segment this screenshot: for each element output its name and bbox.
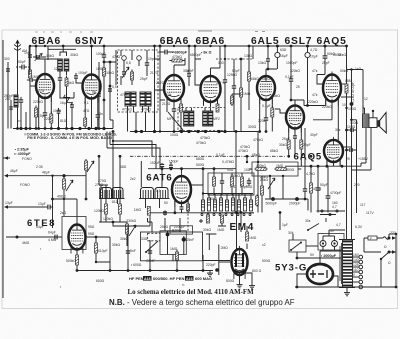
wire: vert x52.5 xyxy=(52,176,54,228)
wire: V9 pins down xyxy=(327,160,340,166)
wire: h y97 xyxy=(341,96,352,98)
wire: vert x26 xyxy=(25,112,27,129)
tube V2 6SN7 xyxy=(83,72,101,103)
potentiometer arrow P4 xyxy=(129,225,136,236)
wire: elbow 2 xyxy=(110,145,156,169)
tube V7 6SL7 xyxy=(286,103,304,133)
capacitor C11 xyxy=(169,162,173,170)
wire: h y62 xyxy=(104,61,116,63)
capacitor C23 blob xyxy=(295,197,299,201)
wire: EM4 feed vert x209 xyxy=(206,234,216,250)
wire: vert x252-168 link xyxy=(249,168,301,170)
wire: pot wiper to 6TE8 xyxy=(63,199,65,216)
wire: y258 h xyxy=(297,257,341,259)
EM4 target shadow xyxy=(236,253,243,267)
wire: V1 pins to bus xyxy=(39,96,52,129)
capacitor C25 xyxy=(327,166,329,194)
bottom bus drops xyxy=(128,240,203,271)
wire: h y105.5 xyxy=(304,105,326,107)
wire: transformer bottom xyxy=(346,287,348,290)
wire: vert x77 xyxy=(76,199,78,225)
wire: vert x110 xyxy=(110,62,113,129)
ground: EM4 right xyxy=(249,283,255,289)
capacitor C8 xyxy=(145,60,149,68)
wires top of tone area xyxy=(113,226,128,246)
capacitor C15 xyxy=(159,51,162,53)
resistor R24 xyxy=(275,168,288,171)
capacitor C37 xyxy=(289,76,293,84)
potentiometer arrow P2 xyxy=(66,180,73,191)
tube V9 6AQ5 xyxy=(324,137,343,166)
capacitor C9 xyxy=(45,205,53,210)
capacitor C38 xyxy=(347,129,350,131)
dotted rail y59 xyxy=(216,58,252,60)
capacitor C30 xyxy=(351,97,353,120)
wire: V9 plate right xyxy=(343,146,352,148)
capacitor C43 xyxy=(163,210,167,215)
wire: V3 rail verticals xyxy=(188,46,190,72)
dashed box: FM front-end xyxy=(118,50,159,112)
wire: left border vertical xyxy=(2,40,4,298)
capacitor C34 xyxy=(108,86,112,94)
wire: AVC dash-dot rail xyxy=(130,155,285,157)
capacitor C18 xyxy=(232,83,236,91)
wire: vert x247 xyxy=(246,156,248,162)
wire: S2 to transformer xyxy=(306,245,318,247)
tube V11 EM4 xyxy=(232,246,248,279)
resistor R7 xyxy=(100,186,103,201)
IF coils in box xyxy=(125,92,130,106)
capacitor C22 blob xyxy=(271,197,275,201)
capacitor C42 xyxy=(148,249,152,254)
wire: vert x249 top xyxy=(248,46,250,59)
coil L1 antenna xyxy=(14,95,18,107)
potentiometer arrow P5 xyxy=(87,161,94,172)
coil L4 xyxy=(154,188,170,199)
wire: bus y166 xyxy=(285,165,345,167)
tube V5 6AL5 xyxy=(257,73,275,104)
wire: V2 plate up xyxy=(91,46,93,74)
band switch S4 contact row xyxy=(200,213,254,216)
capacitor C19 xyxy=(264,115,268,123)
wire: V8 plate right xyxy=(191,169,203,185)
capacitor C47 xyxy=(57,108,61,116)
wire: h y119.8 xyxy=(350,119,357,121)
trimmer cap circles xyxy=(122,56,127,61)
small resistor box above tone box xyxy=(170,226,193,234)
capacitor C27 blob xyxy=(182,237,186,241)
trimmer cap T1 xyxy=(275,52,280,57)
wire: vert x160 xyxy=(159,46,161,132)
wire: x291 vert xyxy=(290,46,292,77)
speaker LS1 magnet xyxy=(369,118,377,128)
wire: elbow 3 xyxy=(107,148,160,169)
junction dots misc xyxy=(90,45,92,47)
resistor R42 xyxy=(231,94,234,106)
wire: x203 down xyxy=(202,169,204,194)
capacitor C49 xyxy=(266,56,270,64)
wire: V10 cathode down xyxy=(76,250,78,256)
capacitor C28 (can) xyxy=(320,241,326,247)
terminal: left edge y158 xyxy=(4,156,8,160)
switch arm S1 xyxy=(146,241,158,252)
wire: V5 pins xyxy=(260,98,273,132)
switch S2 mains selector xyxy=(289,240,306,252)
terminal: phono input 2 xyxy=(4,205,8,209)
wire: vert x234 xyxy=(233,59,235,84)
capacitor C6 xyxy=(74,73,78,81)
resistor R26 xyxy=(310,181,313,196)
tube V8 6AT6 xyxy=(172,173,191,207)
wire: V7 pins down xyxy=(289,127,302,141)
wire: mains terminals xyxy=(388,237,391,240)
wire: rail x356.5 xyxy=(356,120,358,213)
wire: caps row y199 xyxy=(265,198,308,200)
resistor R14 xyxy=(213,176,216,188)
switch S3 mains xyxy=(381,252,389,259)
tube V1 6BA6 xyxy=(36,71,54,102)
box: 6TE8 stage xyxy=(62,217,86,250)
wire: V7 top xyxy=(295,100,304,106)
resistor R32 xyxy=(221,215,224,223)
resistor R6 volume xyxy=(63,177,66,192)
capacitor C31 xyxy=(6,66,10,74)
resistor R28 xyxy=(246,232,249,241)
tube V12 5Y3-G xyxy=(307,264,333,284)
wire: V1 plate up xyxy=(45,59,58,74)
wire: coils tops xyxy=(186,108,211,111)
speaker LS1 neck xyxy=(378,120,380,127)
capacitor C2 xyxy=(43,110,47,118)
wire: caps to transformer xyxy=(323,230,345,236)
wire: V7 grid left xyxy=(275,109,286,113)
junction dots rail y46 xyxy=(153,45,156,48)
trimmer arrow cap xyxy=(34,55,42,59)
box: tone filter outer xyxy=(141,232,203,261)
resistor R21 xyxy=(287,140,290,149)
wire: V10 out right xyxy=(86,237,110,243)
mains terminal arrows xyxy=(392,236,396,254)
terminal: phono input 1 xyxy=(4,174,8,178)
top faint dots xyxy=(35,31,93,33)
transformer T3 output xyxy=(363,114,370,128)
box: AM detector xyxy=(208,173,254,195)
wire: rail y168 xyxy=(148,168,236,170)
ground: EM4 xyxy=(237,282,243,288)
capacitor C21 xyxy=(293,133,297,141)
antenna xyxy=(15,40,19,44)
wire: 5Y3 anode top xyxy=(320,251,341,264)
wire: V4 grid left xyxy=(195,79,201,85)
resistor R29 xyxy=(345,84,348,93)
wire: x311 dots xyxy=(310,155,313,158)
capacitor C48 xyxy=(303,186,307,194)
wire: box feeds from comb xyxy=(148,218,181,232)
wire: x36 stub xyxy=(36,46,45,59)
capacitor C36 xyxy=(187,71,191,79)
wire: bus to x258 xyxy=(257,132,259,213)
wire: left col x11 xyxy=(10,100,12,129)
wire: C3 to V2 grid xyxy=(60,86,74,98)
resistor R15 xyxy=(170,59,185,62)
resistor R3 xyxy=(65,76,68,89)
capacitor C4 xyxy=(19,97,23,105)
resistor R19 xyxy=(248,59,250,72)
input box inner xyxy=(29,46,76,75)
capacitor C39 xyxy=(347,149,349,151)
wire: rail x346.5 xyxy=(346,46,348,251)
wire: 6TE8 input wire xyxy=(6,236,62,238)
capacitor C44 xyxy=(247,178,251,186)
wire: rail168 right end xyxy=(235,132,237,169)
resistor R12 xyxy=(76,253,79,268)
diagonal pointer xyxy=(168,112,183,130)
wire: vert x218.8 xyxy=(218,245,220,276)
wire: speaker down legs xyxy=(352,128,371,171)
resistor R34 xyxy=(176,250,179,263)
resistor R39 xyxy=(35,106,38,120)
wire: V6 grid left xyxy=(317,75,325,85)
resistor R18 xyxy=(240,59,242,88)
transformer T4 core xyxy=(340,243,342,284)
wire: V6 pins down xyxy=(326,99,339,140)
capacitor C46 xyxy=(70,102,74,110)
capacitor C1 xyxy=(19,65,27,70)
capacitor C24 xyxy=(317,166,319,186)
wire: V3 pins xyxy=(167,99,181,113)
wire: tone bus y213 xyxy=(150,212,254,214)
wire: cluster to tone bus xyxy=(113,213,150,227)
wire: coil connections xyxy=(118,161,163,208)
wire: V8 top to rail168 xyxy=(181,169,183,173)
resistor R38 volume xyxy=(126,222,129,236)
resistor R40 xyxy=(85,159,88,172)
resistor R37 xyxy=(241,176,244,188)
resistor R23 xyxy=(255,168,268,171)
wire: mains wiring xyxy=(364,234,396,287)
potentiometer arrow P1 xyxy=(122,67,129,78)
ground: bottom bus xyxy=(207,271,213,277)
wire: vert x195 xyxy=(194,46,196,79)
wire: ground bus left xyxy=(13,128,113,130)
wire: V2 pins down xyxy=(85,97,98,129)
box: filter caps xyxy=(318,234,344,251)
IF transformer T2 xyxy=(58,59,63,71)
caption small: HF PEN note xyxy=(129,276,212,281)
voltage selector contacts xyxy=(307,210,345,231)
wire: caps row drops xyxy=(270,176,308,211)
wire: EM4 right xyxy=(244,273,252,283)
wire: vert x30 xyxy=(29,46,31,129)
resistor R25 xyxy=(261,184,264,198)
transformer T4 secondary taps xyxy=(353,253,363,289)
wire: cluster verticals xyxy=(99,132,120,223)
mains squiggle xyxy=(383,237,389,240)
capacitor C16 xyxy=(172,106,176,114)
capacitor C45 xyxy=(27,78,35,82)
wire: V8 pins down xyxy=(175,200,188,213)
resistor R11 xyxy=(95,241,98,256)
wire: V5 top link xyxy=(266,68,277,70)
wire: B+ top rail xyxy=(30,45,347,47)
wire: rail x351.5 xyxy=(351,70,353,242)
resistor R9 xyxy=(119,202,122,217)
capacitor C13 xyxy=(180,204,184,212)
resistor R41 diagonal xyxy=(63,94,73,107)
resistor R30 xyxy=(103,66,106,79)
wire: V6 plate right xyxy=(341,83,347,85)
wire: h y185 xyxy=(99,184,108,186)
wire: x280 vert xyxy=(279,213,281,230)
resistor R16 xyxy=(180,104,183,112)
box: ratio detector load xyxy=(252,162,298,176)
wire: V5 top xyxy=(266,69,277,76)
wire: ground bus center xyxy=(130,131,258,133)
speaker lead top xyxy=(372,111,374,118)
resistor R4 xyxy=(84,118,87,126)
plus mark xyxy=(199,219,203,223)
wire: bottom bus left xyxy=(77,270,210,272)
wire: V1 grid xyxy=(30,85,36,87)
box: tone filter inner xyxy=(160,231,186,255)
resistor R36 xyxy=(231,176,234,188)
capacitor C35 xyxy=(97,91,101,99)
wire: h y199 xyxy=(53,198,78,200)
wire: x116 vert xyxy=(104,50,116,85)
resistor R35 xyxy=(147,206,150,215)
wire: h y222 xyxy=(99,221,127,223)
wire: 5Y3 right xyxy=(333,276,338,287)
wire: V2 grid left xyxy=(76,80,83,83)
resistor R1 xyxy=(29,68,32,81)
wire: x236 mid link xyxy=(235,169,237,213)
transformer core caps xyxy=(339,240,355,288)
resistor R31 xyxy=(207,215,210,223)
resistor R13 xyxy=(187,204,190,211)
capacitor C14 xyxy=(220,178,224,186)
junction dots ground bus xyxy=(19,127,22,130)
resistor R22 xyxy=(300,140,303,149)
wire: vert x270 xyxy=(269,176,271,198)
wire: V3 plate xyxy=(174,58,185,75)
capacitor C41 xyxy=(126,249,130,254)
capacitor C32 xyxy=(9,104,13,112)
dashed wire into tone box xyxy=(187,206,189,232)
tube V4 6BA6 xyxy=(201,73,221,106)
coil L3 xyxy=(139,188,155,199)
transformer T4 power primary xyxy=(343,240,353,287)
wire: elbow 1 xyxy=(113,141,152,156)
wire: h y119.8 xyxy=(313,119,332,121)
capacitor C7 xyxy=(102,52,106,60)
wire: x63 to top rail xyxy=(62,46,64,52)
tube V6 6AQ5 xyxy=(323,72,341,106)
speaker LS1 cone xyxy=(380,113,387,133)
wire: EM4 left xyxy=(219,261,232,263)
wire: vert x305 xyxy=(304,128,306,156)
capacitor C29 (can) xyxy=(332,241,338,247)
capacitor C17 xyxy=(223,77,227,85)
resistor R8 xyxy=(105,202,108,217)
coil L2b xyxy=(111,188,125,199)
wire: S2 feeds xyxy=(293,234,297,258)
capacitor C10 xyxy=(52,235,60,240)
wire: left edge link y158 xyxy=(3,157,10,159)
capacitor C26 blob xyxy=(166,233,170,237)
wire: EM4 feed verticals xyxy=(237,213,242,250)
wire: x99 vert xyxy=(98,62,100,129)
wire: left col x8 xyxy=(7,62,9,129)
wire: w y94 xyxy=(232,93,241,95)
resistor R5 xyxy=(131,70,134,83)
wire: vert x225 xyxy=(224,46,226,78)
wire: V4 plate xyxy=(211,60,221,76)
capacitor C12 xyxy=(160,163,164,168)
wire: box pins to bus xyxy=(128,112,155,132)
tube V3 6BA6 xyxy=(164,72,184,105)
resistor R33 xyxy=(256,195,259,207)
wire: vert x155 xyxy=(154,46,156,132)
capacitor C20 xyxy=(323,53,328,61)
capacitor C50 xyxy=(122,69,126,77)
wire: V4 pins xyxy=(204,100,218,108)
capacitor C3 xyxy=(58,75,62,83)
wire: left elbow drop xyxy=(107,132,113,149)
wire: box internals xyxy=(121,50,147,85)
wire: speaker top to rail xyxy=(347,70,365,115)
dashed coupling box xyxy=(148,233,161,241)
band switch component row above xyxy=(201,194,253,212)
tube V10 6TE8 xyxy=(69,222,86,254)
capacitor C5 xyxy=(96,112,100,120)
coil L2 xyxy=(99,188,113,199)
wire: box A bottom line xyxy=(208,194,254,196)
wire: x110 vert xyxy=(109,237,111,271)
wire: elbow into bus xyxy=(345,163,361,166)
short stubs xyxy=(155,46,297,100)
resistor R2 xyxy=(50,112,53,126)
wire: inner box bottom xyxy=(172,255,174,261)
wire: EM4 bottom xyxy=(239,275,241,282)
fuse F1 xyxy=(368,236,377,240)
wire: vert x104 xyxy=(103,60,105,129)
wire: box out right xyxy=(203,260,231,262)
trimmer cap T2 xyxy=(305,52,310,57)
value labels scatter xyxy=(20,49,391,289)
IF dashed box center xyxy=(178,108,225,131)
wire: bottom bus right xyxy=(295,286,396,288)
resistor R17 xyxy=(216,104,219,112)
wire: vert x21 xyxy=(20,105,22,129)
resistor R20 xyxy=(271,106,274,120)
potentiometer arrow P3 xyxy=(268,178,275,189)
wire: 5Y3 left to bottom xyxy=(297,274,307,287)
capacitor C33 xyxy=(28,52,32,60)
ground: transformer xyxy=(344,290,350,296)
